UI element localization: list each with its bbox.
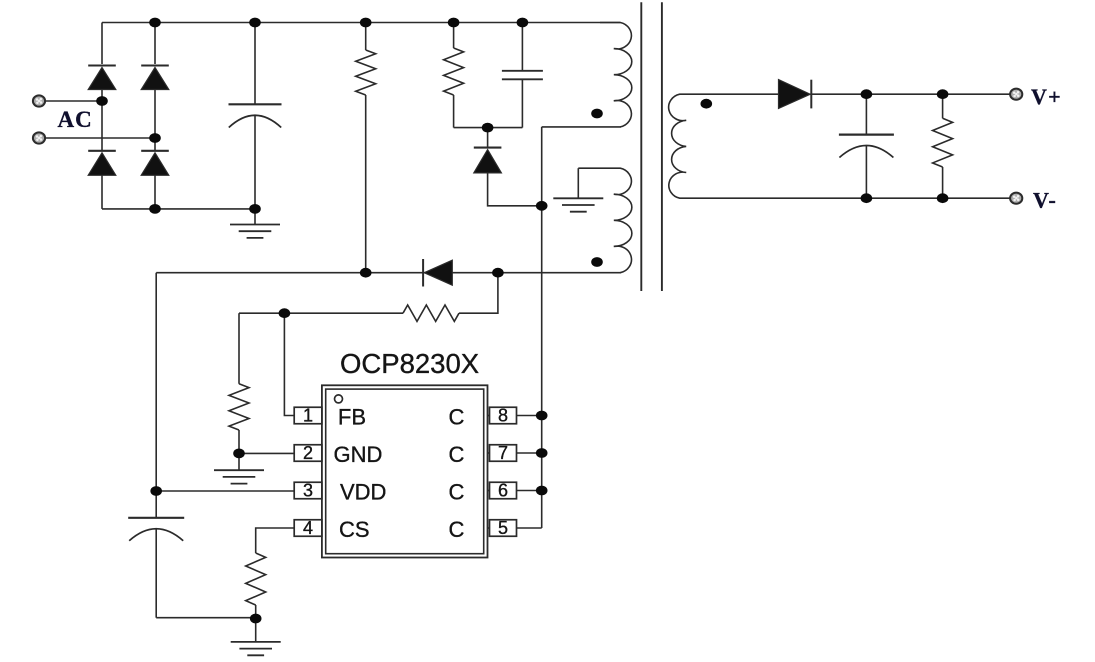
diode D4 bridge lower-right	[141, 150, 169, 152]
resistor R3 FB lower divider	[229, 384, 249, 430]
wire pin6 to drain column	[517, 490, 542, 492]
svg-text:AC: AC	[58, 107, 93, 132]
capacitor C3 VDD	[155, 491, 157, 518]
wire pin8 to drain column	[517, 415, 542, 417]
node junction clamp anode	[536, 201, 548, 211]
node junction CS ground	[250, 614, 262, 624]
capacitor C1 bulk	[254, 23, 256, 105]
svg-text:C: C	[449, 404, 465, 429]
wire left column	[155, 273, 157, 491]
terminal AC line 1	[33, 95, 45, 106]
wire output top	[810, 93, 1011, 95]
capacitor C4 output	[865, 94, 867, 134]
wire bridge bottom rail	[102, 208, 255, 210]
node pin 6 box	[490, 482, 517, 499]
svg-text:VDD: VDD	[340, 479, 386, 504]
svg-text:5: 5	[498, 518, 508, 538]
node U1 pin1 indicator	[335, 395, 343, 403]
node junctions top rail	[149, 18, 161, 28]
wire FB branch down	[238, 313, 240, 384]
diode D7 output rectifier	[779, 80, 811, 109]
node pin 4 box	[294, 520, 322, 537]
svg-text:1: 1	[303, 406, 313, 426]
wire top rail VIN+	[102, 22, 620, 24]
diode D3 bridge lower-left	[88, 150, 116, 152]
wire AC2 to bridge	[45, 137, 155, 139]
svg-text:7: 7	[498, 443, 508, 463]
wire pin3 VDD	[156, 490, 294, 492]
ground current sense	[255, 618, 257, 642]
wire pin5 to drain column	[517, 527, 542, 529]
svg-text:8: 8	[498, 406, 508, 426]
node pin 5 box	[490, 520, 517, 537]
node junction AC1	[96, 96, 108, 106]
wire pin1 FB	[284, 313, 294, 415]
node junction AC2	[149, 133, 161, 143]
terminal V-	[1010, 193, 1022, 204]
ground FB divider	[238, 453, 240, 470]
svg-text:OCP8230X: OCP8230X	[340, 348, 479, 379]
diode D2 bridge upper-right	[141, 64, 169, 66]
svg-text:3: 3	[303, 481, 313, 501]
wire snubber bottom	[454, 127, 523, 129]
node pin 7 box	[490, 445, 517, 462]
transformer T1 auxiliary winding	[578, 168, 632, 273]
svg-text:V+: V+	[1031, 84, 1062, 109]
svg-text:CS: CS	[339, 517, 370, 542]
terminal V+	[1010, 89, 1022, 100]
wire pin4 CS	[256, 528, 295, 553]
resistor R4 feedback	[403, 305, 459, 321]
node primary phase dot	[591, 109, 603, 119]
wire R4 to mid rail	[459, 273, 498, 314]
ground bridge	[254, 209, 256, 225]
node junctions drain pins	[536, 411, 548, 421]
op-amp U1 OCP8230X body	[322, 385, 488, 557]
resistor R2 snubber	[453, 23, 455, 49]
transformer T1 primary winding	[600, 23, 632, 127]
wire FB divider top	[239, 312, 403, 314]
node junction FB wire	[279, 308, 291, 318]
svg-text:V-: V-	[1033, 188, 1057, 213]
node secondary phase dot	[701, 99, 713, 109]
wire mid rail	[156, 272, 621, 274]
node pin 2 box	[294, 445, 322, 462]
node junction snubber	[482, 123, 494, 133]
wire bridge left column	[101, 23, 103, 65]
node junctions output	[861, 89, 873, 99]
wire C3 bottom to CS ground	[156, 617, 256, 619]
ground auxiliary winding	[577, 168, 579, 198]
transformer T1 secondary winding	[669, 94, 867, 198]
node junction VDD	[150, 486, 162, 496]
svg-text:6: 6	[498, 481, 508, 501]
svg-text:C: C	[449, 479, 465, 504]
wire R3 to GND pin	[239, 452, 294, 454]
svg-text:C: C	[449, 517, 465, 542]
wire pin7 to drain column	[517, 452, 542, 454]
wire drain column	[541, 127, 543, 528]
node junctions mid rail	[360, 268, 372, 278]
diode D6 aux rectifier	[422, 259, 424, 287]
resistor R5 current sense	[246, 553, 266, 605]
node junction R3 ground	[233, 449, 245, 459]
node junctions bridge bottom	[149, 204, 161, 214]
diode D1 bridge upper-left	[88, 64, 116, 66]
transformer T1 core	[640, 2, 642, 291]
resistor R1 startup	[365, 23, 367, 51]
svg-text:4: 4	[303, 518, 313, 538]
diode D5 clamp zener	[487, 128, 489, 148]
node pin 3 box	[294, 482, 322, 499]
svg-text:2: 2	[303, 443, 313, 463]
node pin 8 box	[490, 407, 517, 424]
wire output bottom	[866, 197, 1010, 199]
svg-text:GND: GND	[334, 442, 383, 467]
wire bridge right column	[154, 23, 156, 65]
wire AC1 to bridge	[45, 100, 102, 102]
capacitor C2 snubber	[521, 23, 523, 71]
wire primary bottom	[542, 126, 621, 128]
resistor R6 load	[942, 94, 944, 118]
node pin 1 box	[294, 407, 322, 424]
wire zener anode to drain column	[488, 173, 542, 206]
svg-text:FB: FB	[338, 404, 366, 429]
node aux phase dot	[591, 257, 603, 267]
terminal AC line 2	[33, 132, 45, 143]
svg-text:C: C	[449, 442, 465, 467]
